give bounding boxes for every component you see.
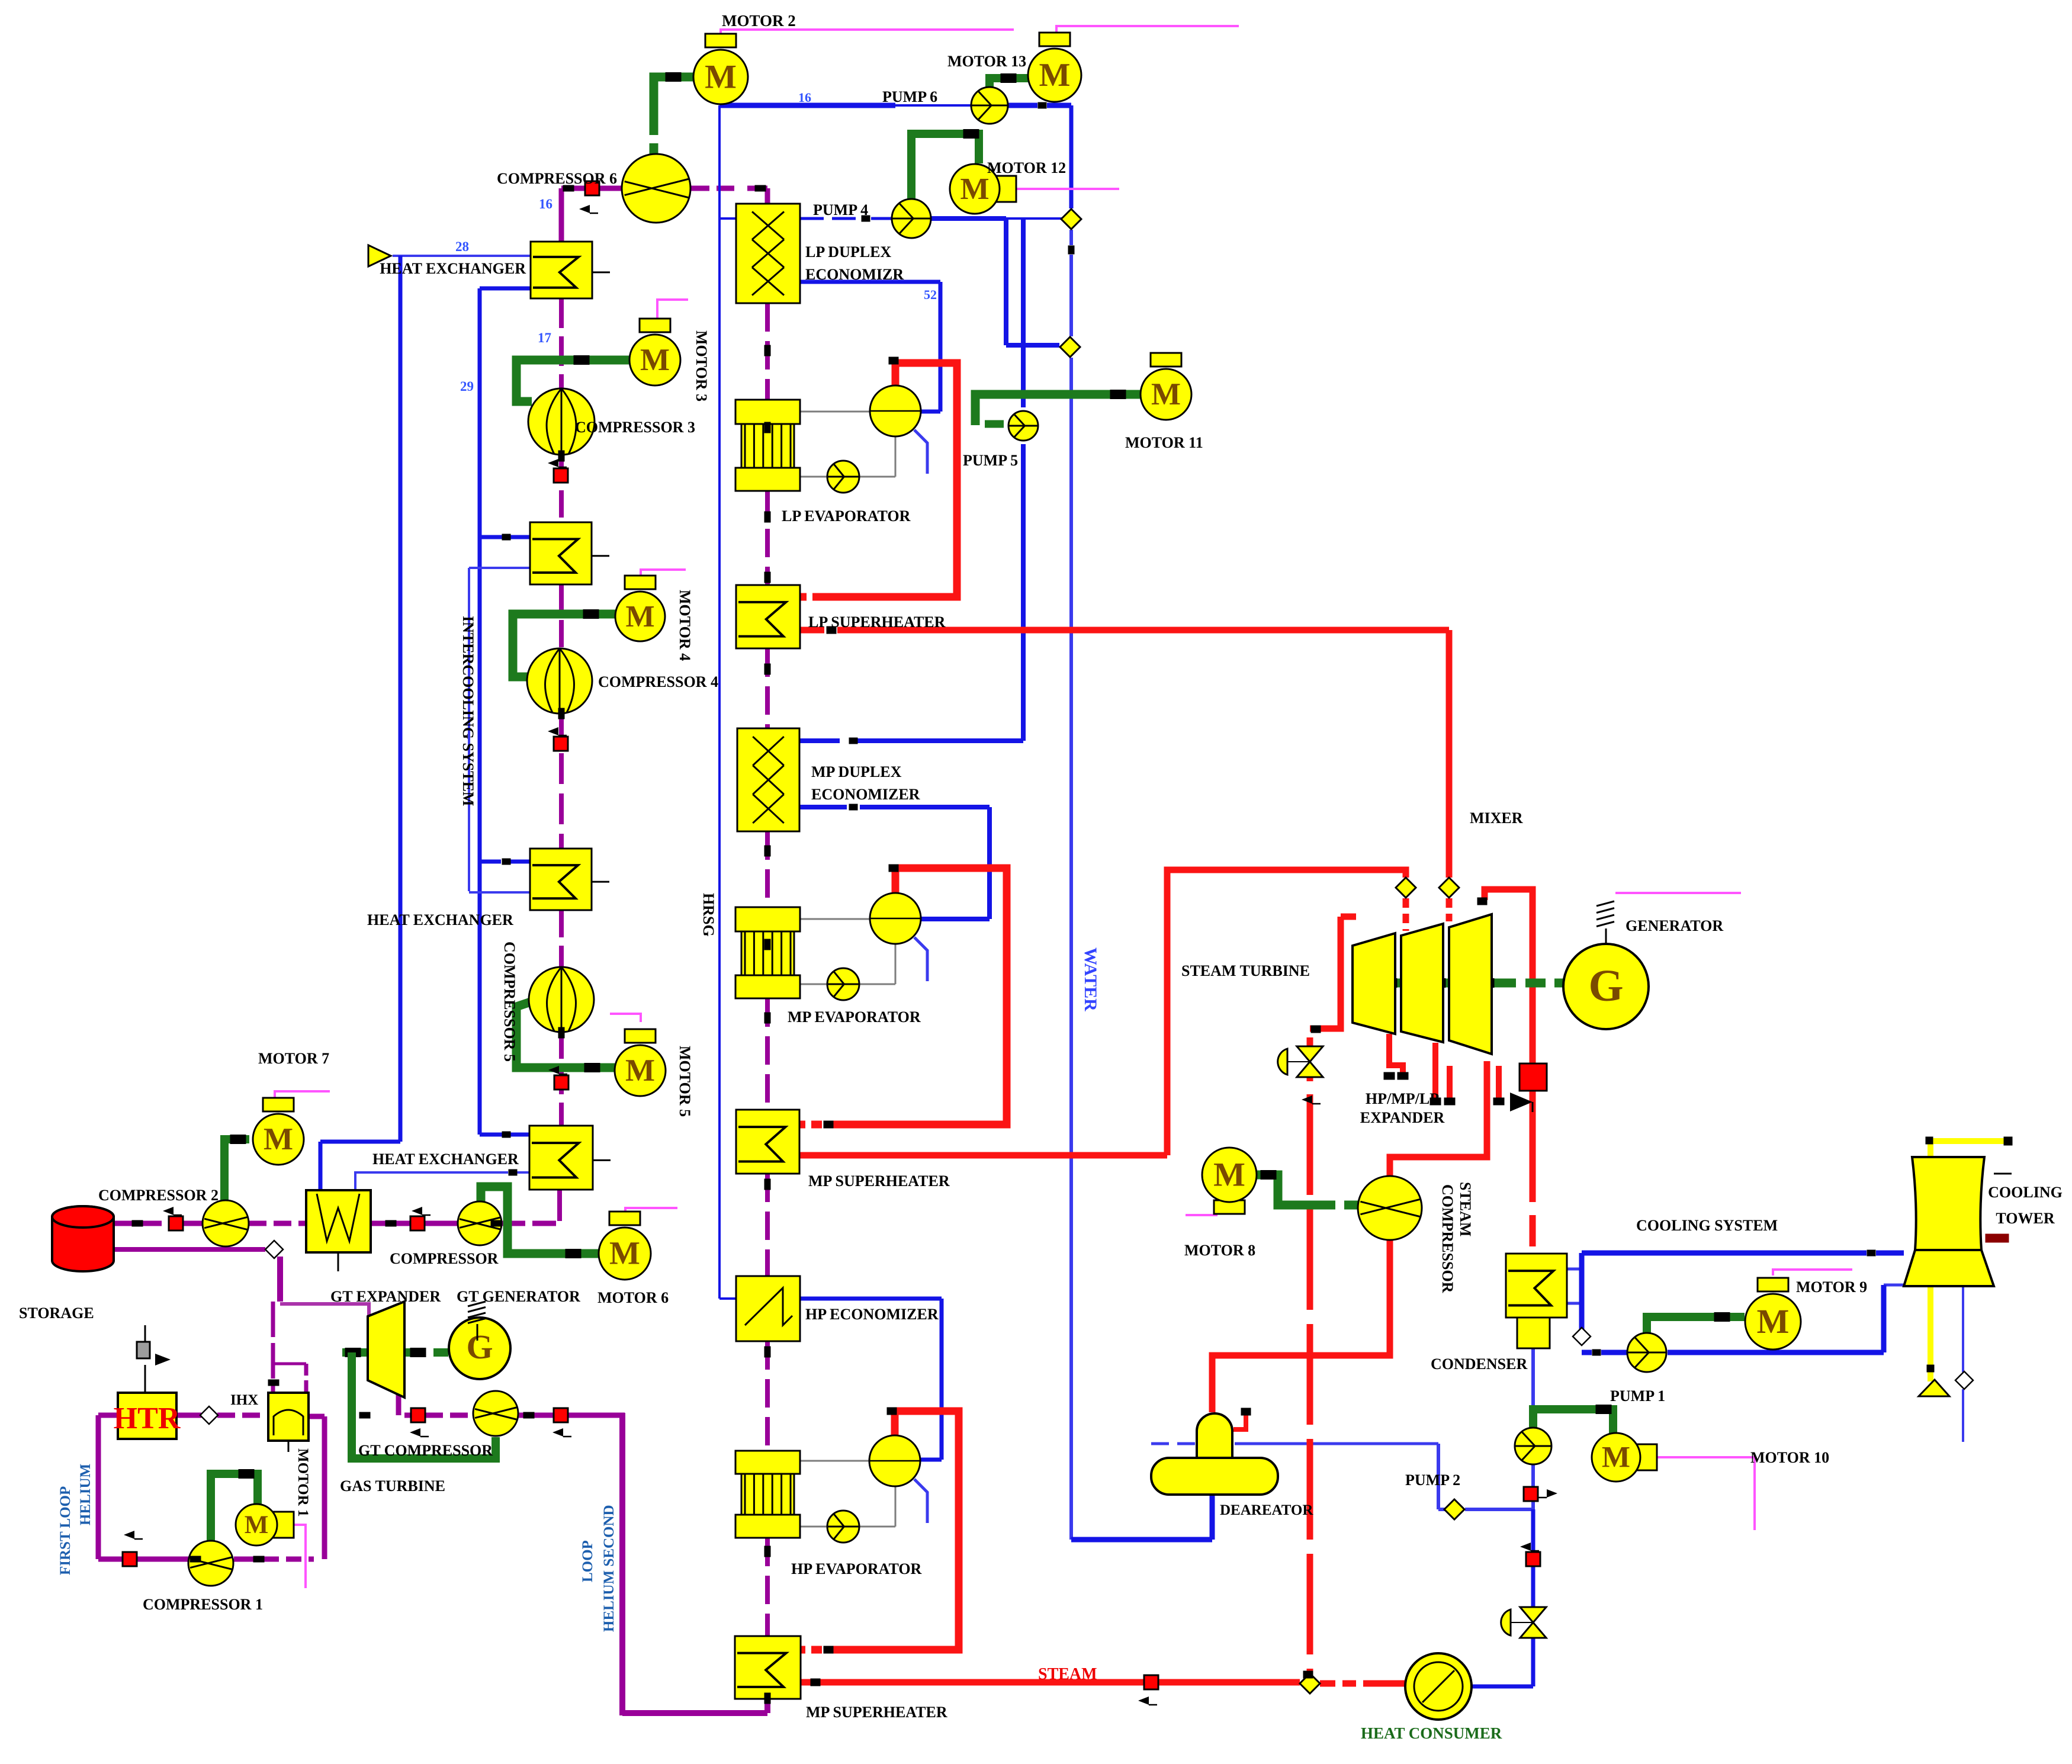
- valve red compressor5: [554, 1075, 568, 1090]
- wire pump 6 suction: [719, 103, 895, 108]
- wire shaft motor8-steam compressor: [1257, 1175, 1335, 1205]
- motor M11: [1151, 353, 1181, 367]
- svg-text:MOTOR 7: MOTOR 7: [258, 1050, 329, 1067]
- wire heat consumer riser: [1531, 1509, 1535, 1552]
- wire storage upper helium line: [114, 1221, 169, 1226]
- pipe ticks red: [889, 357, 898, 364]
- valve red compressor1: [123, 1552, 137, 1566]
- extraction stub caps: [1384, 1072, 1395, 1079]
- wire boiler spine a: [765, 303, 770, 400]
- steam turbine stage 1: [1353, 933, 1395, 1034]
- heat exchanger HX1: [531, 242, 592, 298]
- generator: [1563, 944, 1649, 1029]
- wire water header main: [1069, 358, 1073, 1540]
- wire electric motor9: [1773, 1270, 1852, 1275]
- svg-text:MP EVAPORATOR: MP EVAPORATOR: [788, 1008, 921, 1026]
- heat exchanger HX2: [530, 522, 592, 584]
- wire turbine stage2 extraction: [1432, 1043, 1438, 1100]
- svg-text:HEAT EXCHANGER: HEAT EXCHANGER: [372, 1151, 519, 1168]
- pump P5: [1008, 411, 1038, 441]
- wire heat consumer line: [1472, 1685, 1533, 1689]
- svg-text:HTR: HTR: [114, 1402, 181, 1435]
- wire boiler spine d: [765, 831, 770, 907]
- superheater LP: [736, 585, 800, 648]
- node diamond water1: [1061, 209, 1081, 229]
- motor M3: [640, 319, 670, 332]
- wire GT compressor loop: [352, 1352, 496, 1458]
- heat exchanger HX5: [529, 1126, 593, 1190]
- wire shaft motor1-compressor1: [211, 1474, 258, 1541]
- compressor C5: [529, 967, 594, 1032]
- svg-text:M: M: [1757, 1302, 1790, 1341]
- wire steam compressor discharge: [1390, 1061, 1487, 1177]
- svg-text:EXPANDER: EXPANDER: [1360, 1109, 1445, 1126]
- node diamond condenser: [1573, 1328, 1591, 1345]
- svg-text:STEAM: STEAM: [1038, 1665, 1097, 1683]
- wire heat exchanger 1 outlet: [480, 287, 531, 291]
- wire electric motor3: [657, 300, 688, 320]
- cooling tower drain triangle: [1919, 1380, 1949, 1396]
- svg-text:MOTOR 11: MOTOR 11: [1125, 434, 1203, 451]
- wire pump 4 branch down: [1004, 219, 1008, 345]
- pump LP circulation: [827, 461, 859, 493]
- evaporator HP: [735, 1451, 800, 1474]
- svg-text:HELIUM SECOND: HELIUM SECOND: [601, 1505, 617, 1632]
- heat exchanger IHX: [268, 1393, 309, 1441]
- svg-text:HP EVAPORATOR: HP EVAPORATOR: [791, 1560, 922, 1577]
- svg-text:MOTOR 3: MOTOR 3: [693, 330, 710, 401]
- drum HP: [869, 1435, 920, 1486]
- svg-text:16: 16: [539, 197, 552, 211]
- wire shaft motor3-compressor3: [516, 360, 629, 401]
- wire boiler spine b: [765, 491, 770, 585]
- wire cooling supply: [1582, 1251, 1867, 1256]
- wire shaft pump2-motor10: [1533, 1409, 1613, 1434]
- svg-text:GT COMPRESSOR: GT COMPRESSOR: [358, 1442, 493, 1459]
- wire HRSG spine 2: [559, 455, 564, 522]
- steam turbine stage 2: [1401, 924, 1443, 1042]
- pipe ticks blue: [502, 534, 510, 540]
- wire electric motor6: [625, 1208, 677, 1212]
- wire condenser bottom: [1531, 1348, 1535, 1428]
- pipe ticks purple spine: [558, 451, 564, 461]
- cooling tower: [1912, 1157, 1984, 1250]
- wire shaft pump4-motor12: [911, 134, 979, 200]
- inlet arrow 28: [368, 245, 391, 266]
- wire shaft pump6-motor13: [990, 78, 1028, 89]
- svg-text:MP DUPLEX: MP DUPLEX: [811, 763, 902, 780]
- wire boiler spine h: [765, 1538, 770, 1636]
- wire MP drum drain: [914, 937, 927, 981]
- wire MP superheater outlet steam: [800, 1152, 1167, 1159]
- wire pump 5 suction column: [1021, 219, 1026, 407]
- compressor C6: [622, 154, 690, 223]
- wire storage lower helium line: [114, 1247, 265, 1252]
- node diamond turbine inlet 1: [1396, 878, 1416, 898]
- svg-text:MOTOR 2: MOTOR 2: [722, 12, 796, 30]
- economizer LP duplex: [736, 204, 800, 303]
- wire helium second loop right vertical: [619, 1413, 625, 1715]
- svg-text:MOTOR 12: MOTOR 12: [987, 159, 1066, 176]
- svg-text:GT EXPANDER: GT EXPANDER: [330, 1288, 441, 1305]
- svg-text:COMPRESSOR 3: COMPRESSOR 3: [575, 419, 695, 436]
- wire second loop jog: [273, 1363, 306, 1365]
- wire HRSG spine 5: [559, 910, 564, 968]
- motor M4: [625, 576, 656, 589]
- wire helium first loop right vertical to IHX: [322, 1416, 327, 1559]
- wire heat exchanger 2 inlet: [480, 535, 502, 539]
- svg-text:DEAREATOR: DEAREATOR: [1220, 1502, 1313, 1518]
- valve red GT expander: [411, 1408, 425, 1422]
- svg-text:COMPRESSOR: COMPRESSOR: [1439, 1184, 1456, 1293]
- svg-text:29: 29: [460, 379, 474, 394]
- svg-text:MOTOR 6: MOTOR 6: [597, 1289, 669, 1306]
- wire HP drum drain: [914, 1479, 927, 1523]
- wire HRSG spine 4: [559, 713, 564, 849]
- svg-text:COMPRESSOR: COMPRESSOR: [390, 1250, 499, 1267]
- svg-text:HEAT EXCHANGER: HEAT EXCHANGER: [380, 260, 526, 277]
- valve red compressor line: [410, 1216, 425, 1230]
- svg-text:COMPRESSOR 4: COMPRESSOR 4: [598, 673, 718, 690]
- svg-text:52: 52: [924, 287, 937, 302]
- wire HRSG spine 3: [559, 584, 564, 649]
- motor M9: [1758, 1278, 1788, 1291]
- wire LP superheater outlet steam: [800, 627, 824, 634]
- reactor HTR: [118, 1393, 176, 1439]
- svg-text:MOTOR 10: MOTOR 10: [1750, 1449, 1829, 1466]
- svg-text:PUMP 1: PUMP 1: [1610, 1387, 1665, 1405]
- wire electric generator: [1615, 892, 1741, 894]
- wire heat exchanger 2 outlet: [469, 567, 530, 569]
- wire cooling tower power line: [1928, 1286, 1933, 1381]
- wire steam compressor suction: [1212, 1240, 1390, 1412]
- node diamond pump2 line: [1444, 1499, 1464, 1519]
- wire cooler feed vertical: [399, 256, 403, 1142]
- svg-text:17: 17: [538, 330, 551, 345]
- wire cooling loop riser: [1579, 1253, 1585, 1344]
- svg-text:COMPRESSOR 1: COMPRESSOR 1: [143, 1596, 263, 1613]
- wire boiler spine g: [765, 1341, 770, 1451]
- wire cooling tower drain: [1962, 1286, 1964, 1372]
- wire electric motor1: [291, 1525, 306, 1588]
- superheater MP bottom: [735, 1636, 801, 1699]
- wire turbine inlet 1: [1403, 898, 1409, 931]
- compressor C2: [203, 1200, 249, 1246]
- svg-text:MOTOR 1: MOTOR 1: [295, 1448, 311, 1517]
- wire MP steam riser to turbine: [1167, 870, 1406, 1155]
- valve red turbine exhaust: [1520, 1063, 1547, 1091]
- svg-text:COOLING: COOLING: [1988, 1184, 2063, 1201]
- condenser: [1506, 1254, 1567, 1318]
- wire pump 5 discharge column: [1021, 444, 1026, 741]
- wire electric motor2: [721, 30, 1014, 37]
- wire MP economizer inlet: [853, 738, 1023, 743]
- wire boiler spine f: [765, 1174, 770, 1276]
- wire electric motor5: [610, 1014, 641, 1022]
- valve red compressor3: [554, 468, 568, 483]
- wire heat exchanger 3 outlet: [469, 891, 530, 894]
- wire GT shaft right: [404, 1348, 424, 1357]
- svg-text:COOLING SYSTEM: COOLING SYSTEM: [1636, 1217, 1778, 1234]
- wire GT shaft left: [342, 1348, 367, 1357]
- wire shaft motor4-compressor4: [513, 614, 616, 677]
- wire water header: [1069, 230, 1073, 245]
- wire GT expander outlet: [396, 1393, 401, 1415]
- valve red storage: [169, 1216, 183, 1230]
- wire condenser stubs: [1567, 1268, 1582, 1271]
- svg-text:CONDENSER: CONDENSER: [1431, 1355, 1527, 1373]
- wire HP circulation: [801, 1460, 869, 1462]
- pump P6: [971, 87, 1008, 124]
- motor M8: [1214, 1200, 1245, 1214]
- wire MP drum riser: [829, 868, 1007, 1124]
- pump MP circulation: [827, 968, 859, 1000]
- motor M2: [705, 34, 736, 47]
- svg-text:M: M: [705, 58, 737, 95]
- wire heat exchanger 3 inlet: [480, 860, 501, 864]
- wire helium first loop left vertical: [96, 1415, 101, 1559]
- motor M12: [992, 176, 1016, 202]
- node diamond HTR-IHX: [200, 1406, 218, 1424]
- valve red GT loop: [554, 1408, 568, 1422]
- wire intercooling column: [478, 288, 482, 1135]
- svg-text:FIRST LOOP: FIRST LOOP: [57, 1486, 73, 1575]
- wire HP drum riser: [829, 1411, 959, 1650]
- svg-text:COMPRESSOR 6: COMPRESSOR 6: [497, 170, 617, 187]
- wire cooling tower overflow line: [1994, 1173, 2012, 1175]
- svg-text:LOOP: LOOP: [580, 1540, 596, 1582]
- wire mixer drop: [1446, 630, 1453, 878]
- valve red pump2 line: [1524, 1487, 1538, 1501]
- valve bypass: [1297, 1046, 1323, 1062]
- wire shaft motor2-compressor6: [654, 77, 694, 135]
- svg-text:PUMP 5: PUMP 5: [963, 452, 1018, 469]
- svg-text:LP DUPLEX: LP DUPLEX: [805, 243, 891, 261]
- GT expander: [368, 1302, 404, 1397]
- wire heat exchanger 1 inlet 28: [393, 255, 531, 257]
- wire electric motor10: [1641, 1457, 1755, 1530]
- svg-text:MOTOR 13: MOTOR 13: [947, 53, 1026, 70]
- superheater MP: [736, 1110, 799, 1174]
- heat exchanger intercooler W: [306, 1190, 371, 1252]
- economizer MP duplex: [737, 728, 799, 831]
- evaporator LP: [735, 400, 800, 424]
- valve red heat consumer riser: [1526, 1552, 1540, 1566]
- wire turbine stage1 extraction: [1389, 1034, 1403, 1074]
- wire LP drum riser: [812, 363, 957, 597]
- wire electric motor4: [641, 570, 686, 576]
- wire HTR left stub: [98, 1413, 118, 1418]
- svg-text:MOTOR 9: MOTOR 9: [1796, 1278, 1867, 1296]
- svg-text:TOWER: TOWER: [1996, 1210, 2054, 1227]
- svg-text:PUMP 6: PUMP 6: [882, 88, 937, 105]
- flag turbine exhaust: [1510, 1093, 1533, 1111]
- wire cooling return: [1884, 1284, 1904, 1287]
- drum LP: [870, 385, 921, 436]
- wire steam line to heat consumer: [800, 1679, 1144, 1686]
- wire pump 1 suction: [1601, 1350, 1627, 1355]
- svg-text:MOTOR 8: MOTOR 8: [1184, 1242, 1255, 1259]
- svg-text:MP SUPERHEATER: MP SUPERHEATER: [806, 1704, 947, 1721]
- flag gas turbine inlet: [1302, 1095, 1312, 1104]
- wire electric motor12: [1016, 188, 1119, 190]
- HTR relief valve: [144, 1365, 146, 1393]
- svg-text:GT GENERATOR: GT GENERATOR: [457, 1288, 580, 1305]
- pump P2: [1515, 1428, 1551, 1464]
- compressor C1: [188, 1541, 233, 1586]
- svg-text:PUMP 4: PUMP 4: [813, 201, 868, 219]
- svg-text:28: 28: [455, 239, 469, 254]
- wire boiler spine e: [765, 998, 770, 1110]
- svg-text:LP SUPERHEATER: LP SUPERHEATER: [808, 613, 946, 631]
- wire HRSG spine 1: [559, 298, 564, 388]
- wire heat exchanger 5 inlet: [480, 1133, 502, 1137]
- wire IHX right outlet: [310, 1414, 325, 1419]
- svg-text:ECONOMIZR: ECONOMIZR: [805, 266, 904, 283]
- wire HRSG spine 6: [559, 1032, 564, 1126]
- pump P1: [1627, 1333, 1666, 1372]
- heat consumer: [1405, 1653, 1472, 1720]
- GT compressor: [473, 1391, 518, 1436]
- svg-text:M: M: [264, 1122, 293, 1156]
- svg-text:PUMP 2: PUMP 2: [1405, 1471, 1460, 1489]
- wire MP circulation: [800, 918, 870, 920]
- wire shaft pump5-motor11: [975, 394, 1140, 425]
- wire left feed vertical long: [718, 219, 721, 1299]
- heat exchanger HX3: [530, 849, 592, 910]
- svg-text:M: M: [625, 600, 654, 634]
- svg-text:M: M: [960, 172, 989, 206]
- wire mixer valve feed: [1446, 898, 1453, 921]
- pump P4: [892, 199, 931, 238]
- valve red compressor6: [585, 181, 599, 195]
- pipe ticks purple horizontal: [563, 185, 574, 191]
- svg-text:16: 16: [798, 90, 811, 105]
- steam compressor: [1358, 1176, 1422, 1240]
- wire electric motor7: [275, 1091, 330, 1098]
- wire deaerator vent stub: [1233, 1413, 1246, 1429]
- wire shaft motor5-compressor5: [516, 1002, 615, 1068]
- wire MP economizer outlet: [800, 805, 847, 809]
- svg-text:STORAGE: STORAGE: [19, 1304, 94, 1322]
- wire LP circulation: [800, 411, 870, 413]
- motor M1: [270, 1512, 294, 1538]
- wire pump 2 down: [1531, 1464, 1535, 1509]
- svg-text:MOTOR 4: MOTOR 4: [676, 590, 693, 661]
- svg-text:COMPRESSOR 5: COMPRESSOR 5: [501, 942, 518, 1062]
- motor M7: [263, 1098, 294, 1111]
- svg-text:LP EVAPORATOR: LP EVAPORATOR: [782, 507, 911, 525]
- node diamond steam junction: [1300, 1673, 1320, 1694]
- svg-text:HEAT CONSUMER: HEAT CONSUMER: [1361, 1724, 1502, 1742]
- wire electric motor13: [1056, 26, 1239, 34]
- svg-text:STEAM TURBINE: STEAM TURBINE: [1181, 962, 1310, 979]
- svg-text:COMPRESSOR 2: COMPRESSOR 2: [98, 1187, 219, 1204]
- wire pump 6 discharge: [1008, 103, 1037, 108]
- svg-text:M: M: [1213, 1156, 1245, 1193]
- svg-text:M: M: [1039, 57, 1071, 94]
- svg-text:HP ECONOMIZER: HP ECONOMIZER: [805, 1306, 939, 1323]
- wire turbine stage1 crossover: [1341, 914, 1356, 920]
- wire second loop to IHX left leg: [271, 1302, 275, 1393]
- wire boiler spine c: [765, 648, 770, 728]
- svg-text:M: M: [625, 1053, 655, 1088]
- svg-text:INTERCOOLING SYSTEM: INTERCOOLING SYSTEM: [460, 616, 477, 806]
- node diamond tower drain: [1955, 1371, 1973, 1389]
- svg-text:ECONOMIZER: ECONOMIZER: [811, 786, 920, 803]
- wire cooler return: [355, 1172, 508, 1190]
- wire shaft pump1-motor9: [1647, 1317, 1745, 1334]
- svg-text:WATER: WATER: [1081, 947, 1100, 1011]
- node diamond turbine inlet 2: [1439, 878, 1459, 898]
- svg-text:HP/MP/LP: HP/MP/LP: [1366, 1090, 1439, 1107]
- wire left feed vertical: [718, 105, 721, 219]
- GT generator: [449, 1318, 510, 1379]
- pipe tick water top: [1068, 246, 1074, 254]
- wire turbine bypass vertical: [1307, 1037, 1313, 1046]
- drum MP: [870, 893, 921, 944]
- wire shaft compressor-motor6: [481, 1187, 599, 1254]
- wire pump 4 discharge: [931, 216, 1006, 221]
- wire water header bottom to deaerator: [1071, 1537, 1212, 1543]
- cooling tower outlet bar: [1986, 1234, 2009, 1242]
- svg-text:STEAM: STEAM: [1457, 1182, 1474, 1236]
- motor M6: [609, 1212, 640, 1225]
- svg-text:M: M: [1151, 377, 1181, 412]
- svg-text:HEAT EXCHANGER: HEAT EXCHANGER: [367, 911, 513, 928]
- svg-text:M: M: [640, 343, 670, 377]
- wire pump 4 suction: [800, 217, 859, 220]
- valve red steam line: [1144, 1675, 1158, 1689]
- wire helium second loop bottom: [622, 1710, 767, 1716]
- wire shaft motor7-compressor2: [224, 1139, 249, 1201]
- motor M13: [1039, 33, 1070, 46]
- evaporator MP: [735, 907, 800, 931]
- svg-text:MP SUPERHEATER: MP SUPERHEATER: [808, 1172, 950, 1190]
- pump HP circulation: [827, 1511, 859, 1543]
- motor M5: [625, 1029, 656, 1043]
- wire HP economizer outlet: [800, 1297, 942, 1301]
- compressor C3: [528, 388, 595, 455]
- wire turbine exhaust to condenser: [1485, 889, 1533, 1063]
- wire HTR to diamond to IHX: [176, 1413, 201, 1418]
- svg-text:G: G: [466, 1328, 493, 1366]
- wire pump 2 line to diamond: [1465, 1508, 1533, 1511]
- svg-text:IHX: IHX: [230, 1392, 258, 1408]
- wire LP drum drain: [914, 430, 927, 474]
- svg-text:G: G: [1588, 961, 1623, 1011]
- motor M10: [1633, 1444, 1657, 1470]
- svg-text:MIXER: MIXER: [1470, 809, 1523, 827]
- wire GT expander inlet: [280, 1304, 369, 1320]
- svg-text:M: M: [1602, 1441, 1630, 1474]
- svg-text:HRSG: HRSG: [700, 893, 717, 937]
- steam turbine stage 3: [1449, 914, 1492, 1054]
- svg-text:GENERATOR: GENERATOR: [1626, 917, 1723, 934]
- wire compressor 6 line: [597, 186, 623, 191]
- valve heat consumer: [1520, 1607, 1546, 1622]
- wire turbine stage3 extraction: [1496, 1066, 1502, 1100]
- wire heat exchanger 5 down leg: [557, 1190, 562, 1221]
- svg-text:M: M: [245, 1511, 269, 1539]
- wire helium second loop down from diamond: [277, 1257, 283, 1302]
- svg-text:M: M: [609, 1235, 640, 1271]
- wire helium first loop bottom: [98, 1557, 129, 1562]
- storage tank: [52, 1206, 114, 1271]
- compressor C4: [527, 648, 592, 714]
- wire electric motor8: [1186, 1214, 1217, 1216]
- svg-text:HELIUM: HELIUM: [78, 1464, 94, 1525]
